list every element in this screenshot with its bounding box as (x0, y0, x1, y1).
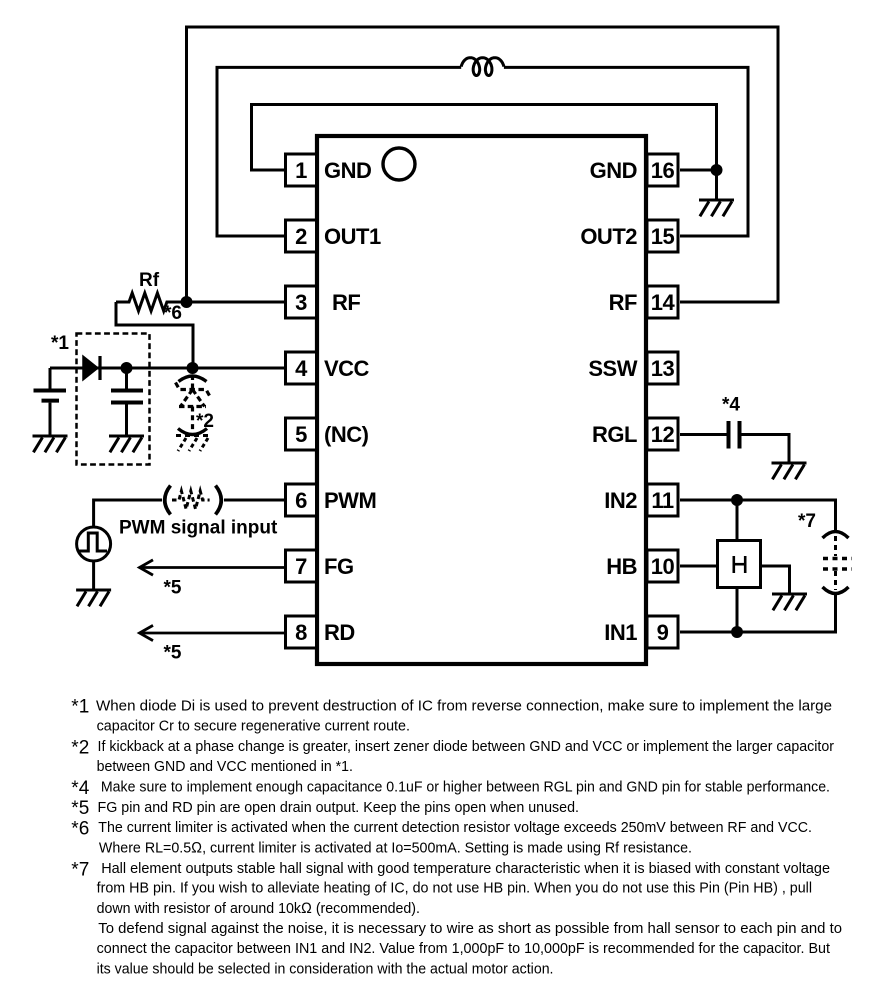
svg-text:2: 2 (295, 224, 307, 249)
svg-text:*4: *4 (71, 778, 89, 799)
svg-text:GND: GND (590, 158, 637, 183)
ground at Cr (109, 436, 144, 452)
svg-text:*1: *1 (71, 697, 89, 718)
inductor L (461, 58, 504, 76)
svg-text:12: 12 (651, 422, 675, 447)
capacitor *7 (dashed, optional) between IN1 and IN2 (823, 532, 853, 594)
arrow FG(7) output (140, 560, 285, 575)
svg-text:6: 6 (295, 488, 307, 513)
wire PWM(6) right segment (224, 499, 284, 502)
arrow RD(8) output (140, 625, 285, 640)
svg-text:3: 3 (295, 290, 307, 315)
svg-text:connect the capacitor between: connect the capacitor between IN1 and IN… (97, 940, 831, 957)
wire H box right to ground (762, 566, 790, 594)
wire OUT1(2) left/top segment (217, 67, 461, 236)
wire inductor to OUT2(15) (504, 67, 748, 236)
svg-text:GND: GND (324, 158, 371, 183)
junction dot VCC/Cr (121, 362, 133, 374)
svg-text:16: 16 (651, 158, 675, 183)
svg-text:HB: HB (606, 554, 637, 579)
svg-text:down with resistor of around 1: down with resistor of around 10kΩ (recom… (97, 900, 420, 917)
junction dot at GND16 (711, 164, 723, 176)
pin 14 box (647, 286, 678, 318)
PIN BOXES RIGHT (647, 154, 678, 648)
svg-text:13: 13 (651, 356, 675, 381)
svg-text:Hall element outputs stable ha: Hall element outputs stable hall signal … (101, 860, 830, 877)
pin 11 box (647, 484, 678, 516)
wire Rf bypass to VCC junction (116, 302, 193, 368)
svg-text:FG pin and RD pin are open dra: FG pin and RD pin are open drain output.… (98, 799, 580, 816)
wire pin16 stub (680, 170, 717, 201)
svg-text:Where RL=0.5Ω, current limiter: Where RL=0.5Ω, current limiter is activa… (99, 839, 692, 856)
zener diode *2 (dashed, optional) (176, 375, 211, 435)
wire H box bottom to IN1 (736, 589, 739, 632)
svg-text:Rf: Rf (139, 270, 160, 291)
svg-text:*1: *1 (51, 333, 69, 354)
pin 1 indicator circle (383, 148, 415, 180)
svg-text:*2: *2 (196, 411, 214, 432)
svg-text:FG: FG (324, 554, 354, 579)
junction dot VCC/zener (187, 362, 199, 374)
svg-text:*5: *5 (164, 643, 182, 664)
pin names left (324, 158, 381, 645)
pin 2 box (286, 220, 317, 252)
ground at *4 cap (772, 463, 807, 479)
svg-text:IN2: IN2 (604, 488, 637, 513)
svg-text:OUT1: OUT1 (324, 224, 381, 249)
resistor Rf (116, 293, 187, 311)
ground at pulse source (76, 590, 111, 606)
svg-text:IN1: IN1 (604, 620, 637, 645)
svg-text:*5: *5 (71, 798, 89, 819)
svg-text:The current limiter is activat: The current limiter is activated when th… (98, 819, 812, 836)
svg-text:When diode Di is used to preve: When diode Di is used to prevent destruc… (96, 697, 832, 714)
svg-text:*6: *6 (71, 818, 89, 839)
svg-text:15: 15 (651, 224, 675, 249)
pin 3 box (286, 286, 317, 318)
pin numbers left (295, 158, 308, 645)
svg-text:*2: *2 (71, 737, 89, 758)
svg-text:11: 11 (651, 488, 674, 513)
svg-text:(NC): (NC) (324, 422, 369, 447)
svg-text:its value should be selected i: its value should be selected in consider… (97, 960, 554, 977)
pin 6 box (286, 484, 317, 516)
wire GND(1) to GND(16) (252, 105, 717, 171)
svg-text:Make sure to implement enough: Make sure to implement enough capacitanc… (101, 779, 830, 796)
svg-text:RF: RF (332, 290, 360, 315)
pin 9 box (647, 616, 678, 648)
svg-text:4: 4 (295, 356, 308, 381)
pin 13 box (647, 352, 678, 384)
wire IN1(9) (680, 592, 836, 632)
capacitor (left, reverse-connection cap) (34, 368, 67, 436)
wire VCC(4) (50, 367, 284, 370)
PIN BOXES LEFT (286, 154, 317, 648)
svg-text:RGL: RGL (592, 422, 637, 447)
ground at left capacitor (33, 436, 68, 452)
svg-text:OUT2: OUT2 (580, 224, 637, 249)
svg-text:10: 10 (651, 554, 675, 579)
dashed box around Di and Cr (77, 334, 150, 465)
IC body U1 (317, 136, 646, 664)
svg-text:between GND and VCC mentioned: between GND and VCC mentioned in *1. (97, 758, 353, 775)
wire IN2(11) (680, 500, 836, 532)
NOTES TEXT (71, 697, 842, 978)
svg-text:*5: *5 (164, 578, 182, 599)
svg-text:If kickback at a phase change: If kickback at a phase change is greater… (98, 738, 835, 755)
ground at pin16 (699, 200, 734, 216)
junction dot IN2/H (731, 494, 743, 506)
diode Di (83, 356, 100, 380)
pin 1 box (286, 154, 317, 186)
svg-text:PWM signal input: PWM signal input (119, 518, 278, 539)
dashed ground at zener (176, 436, 209, 452)
pin 7 box (286, 550, 317, 582)
svg-text:7: 7 (295, 554, 307, 579)
svg-text:1: 1 (295, 158, 307, 183)
svg-text:9: 9 (657, 620, 669, 645)
ground at H box (772, 594, 807, 610)
svg-text:PWM: PWM (324, 488, 376, 513)
resistor (dashed, optional) in PWM line (165, 486, 222, 515)
pin names right (580, 158, 637, 645)
svg-text:RD: RD (324, 620, 355, 645)
pin 8 box (286, 616, 317, 648)
svg-text:8: 8 (295, 620, 307, 645)
svg-text:*6: *6 (164, 303, 182, 324)
pin 5 box (286, 418, 317, 450)
svg-text:*7: *7 (71, 859, 89, 880)
label H (734, 556, 745, 573)
svg-text:14: 14 (651, 290, 676, 315)
svg-text:*7: *7 (798, 511, 816, 532)
hall element H box (718, 541, 761, 588)
capacitor Cr (111, 368, 143, 436)
wire IN2 to H box (736, 500, 739, 539)
pin 12 box (647, 418, 678, 450)
pin 16 box (647, 154, 678, 186)
pin 4 box (286, 352, 317, 384)
wire PWM(6) left segment (94, 500, 162, 527)
svg-text:from HB pin. If you wish to al: from HB pin. If you wish to alleviate he… (97, 880, 812, 897)
svg-text:5: 5 (295, 422, 307, 447)
wire RF(3) to RF(14) outer loop (187, 27, 779, 302)
pin 10 box (647, 550, 678, 582)
svg-text:SSW: SSW (588, 356, 637, 381)
junction dot IN1/H (731, 626, 743, 638)
pin numbers right (651, 158, 676, 645)
svg-text:*4: *4 (722, 395, 740, 416)
svg-text:RF: RF (609, 290, 637, 315)
svg-text:capacitor Cr to secure regener: capacitor Cr to secure regenerative curr… (97, 718, 410, 735)
pulse source (77, 527, 111, 590)
pin 15 box (647, 220, 678, 252)
junction dot Rf/pin3 (181, 296, 193, 308)
wire HB(10) to H box (680, 565, 716, 568)
capacitor *4 at RGL(12) (680, 421, 789, 462)
svg-text:To defend signal against the n: To defend signal against the noise, it i… (98, 920, 842, 937)
svg-text:VCC: VCC (324, 356, 370, 381)
